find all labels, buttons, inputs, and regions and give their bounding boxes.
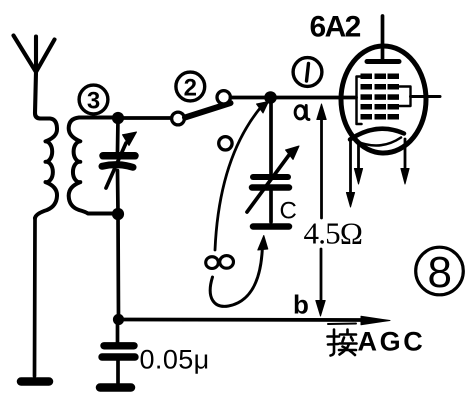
curved arrow from infinity to C bottom plate (210, 236, 268, 307)
tube heater arc (356, 138, 401, 146)
switch S pivot contact (172, 112, 185, 125)
infinity symbol (206, 256, 234, 269)
label 接AGC (328, 324, 357, 356)
svg-text:b: b (293, 290, 309, 320)
variable capacitor (tuning) across secondary (102, 118, 137, 213)
curved arrow from infinity to junction (215, 102, 269, 251)
capacitor 0.05u (102, 320, 135, 384)
tube grid right bracket (400, 87, 411, 107)
tube grid left bracket (357, 77, 362, 125)
ground (right) (100, 383, 131, 392)
dimension arrow a-b upper segment (317, 104, 326, 218)
svg-text:8: 8 (428, 248, 452, 297)
label ② (176, 72, 205, 101)
label ① (293, 58, 322, 87)
capacitor C (variable) (247, 98, 299, 227)
switch contact (open throw) (219, 137, 232, 150)
wire switch contact to tube grid (231, 96, 357, 100)
tube cathode lead with arrow (346, 140, 354, 207)
wire tube output right (411, 95, 441, 98)
label ③ (79, 85, 108, 114)
wire junction to switch pivot (123, 116, 171, 120)
dimension arrow a-b lower segment (316, 249, 325, 316)
svg-text:4.5Ω: 4.5Ω (304, 216, 363, 251)
svg-text:3: 3 (87, 87, 100, 114)
svg-text:2: 2 (184, 74, 197, 101)
transformer T1 primary coil (35, 119, 57, 219)
svg-text:AGC: AGC (358, 327, 426, 357)
wire primary bottom to ground (33, 218, 37, 376)
svg-text:0.05μ: 0.05μ (140, 345, 210, 375)
tube heater lead right with arrow (401, 139, 409, 184)
svg-text:6A2: 6A2 (310, 11, 361, 44)
node junction AGC (113, 314, 124, 325)
transformer T1 secondary coil (69, 118, 118, 214)
tube 6A2 envelope (341, 46, 426, 153)
tube grids (dashed electrodes) (361, 74, 400, 120)
tube heater lead left with arrow (354, 144, 362, 184)
label a (295, 106, 309, 120)
svg-text:C: C (280, 198, 297, 225)
label ⑧ (416, 247, 464, 297)
wire tank bottom down to AGC junction (116, 214, 120, 319)
ground (left) (21, 377, 49, 386)
tube cathode arc (350, 129, 404, 140)
switch contact (closed throw) (217, 91, 230, 104)
wire AGC bottom with arrow (119, 316, 391, 324)
antenna (14, 36, 55, 119)
node junction top (C tap) (264, 91, 277, 104)
tube top electrode bar (367, 59, 399, 64)
node junction tank top (112, 112, 124, 124)
tube top lead (381, 16, 385, 59)
switch blade (185, 103, 231, 118)
node junction tank bottom (112, 208, 124, 220)
